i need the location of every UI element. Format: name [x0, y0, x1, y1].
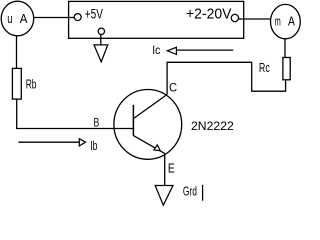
terminal +2-20V — [231, 14, 238, 21]
wire emitter E to ground — [164, 153, 166, 185]
svg-text:Rc: Rc — [259, 61, 270, 75]
svg-text:+5V: +5V — [85, 7, 103, 23]
svg-text:A: A — [288, 15, 295, 29]
transistor emitter arrowhead — [154, 145, 160, 151]
svg-text:Rb: Rb — [26, 77, 37, 91]
wire mA meter down to Rc — [284, 39, 286, 58]
transistor collector line — [133, 95, 167, 119]
wire ground terminal stem — [100, 35, 102, 45]
power supply box — [69, 1, 244, 38]
svg-text:u: u — [7, 12, 12, 26]
ammeter uA U1 — [1, 1, 34, 36]
svg-text:+2-20V: +2-20V — [186, 6, 232, 22]
text cursor after Grd — [202, 185, 204, 201]
wire uA meter to +5V terminal — [34, 17, 75, 19]
ground symbol Grd — [155, 186, 173, 206]
transistor emitter line — [133, 136, 164, 154]
svg-text:m: m — [275, 15, 281, 29]
wire uA meter down to Rb — [16, 36, 18, 69]
wire Rc bottom to collector C — [167, 62, 286, 94]
wire +2-20V terminal to mA meter — [239, 18, 271, 20]
svg-text:Ib: Ib — [90, 138, 97, 153]
resistor Rc — [283, 58, 290, 80]
svg-text:E: E — [168, 161, 175, 175]
svg-text:Grd: Grd — [183, 185, 197, 199]
Ic arrow line — [176, 49, 233, 51]
transistor Q1 2N2222 body — [114, 90, 182, 160]
resistor Rb — [12, 68, 21, 99]
ground symbol under box — [94, 45, 108, 62]
svg-text:B: B — [94, 116, 100, 130]
Ib arrowhead — [79, 139, 85, 146]
terminal ground — [98, 28, 104, 34]
Ic arrowhead — [167, 47, 176, 54]
svg-text:A: A — [20, 12, 28, 26]
svg-text:C: C — [169, 80, 177, 94]
ammeter mA U2 — [271, 4, 301, 38]
Ib arrow line — [18, 141, 79, 143]
wire Rb bottom to base B — [17, 99, 134, 128]
transistor base bar — [132, 105, 134, 136]
svg-text:2N2222: 2N2222 — [191, 119, 234, 133]
svg-text:Ic: Ic — [152, 43, 160, 57]
terminal +5V — [74, 14, 81, 21]
